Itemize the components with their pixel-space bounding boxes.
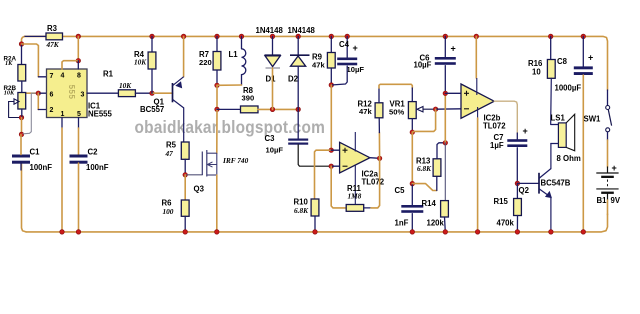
wire Q2 emitter to ground xyxy=(550,197,552,232)
wire Q2 collector to LS1 xyxy=(550,144,552,169)
resistor R14 xyxy=(441,201,449,217)
label 1N4148 D1 xyxy=(256,26,284,35)
wire R13 bottom lead xyxy=(436,176,438,190)
svg-text:47: 47 xyxy=(165,149,174,158)
value R5 47 xyxy=(165,149,174,158)
label TL072 a xyxy=(362,178,385,187)
value LS1 8 Ohm xyxy=(557,154,581,163)
diode D1 1N4148 xyxy=(265,55,281,68)
svg-text:C4: C4 xyxy=(339,40,350,49)
junction VR1 bottom xyxy=(410,130,415,135)
battery B1 xyxy=(596,173,618,194)
wire rail to D1 xyxy=(272,36,274,55)
value R11 1M8 xyxy=(348,192,362,201)
wire node to C3 xyxy=(297,109,299,138)
label R2A xyxy=(4,55,17,62)
wire battery bottom lead xyxy=(607,194,609,200)
wire node to C5 xyxy=(411,184,413,205)
svg-text:6.8K: 6.8K xyxy=(417,164,432,173)
resistor R11 xyxy=(346,205,364,212)
svg-text:Q3: Q3 xyxy=(194,185,205,194)
pin number 5 xyxy=(77,111,81,118)
wire pin 5 stub xyxy=(78,118,80,129)
svg-text:1M8: 1M8 xyxy=(348,192,362,201)
wire VR1 bottom down to C5 node xyxy=(411,132,413,183)
svg-text:NE555: NE555 xyxy=(88,110,113,119)
svg-text:1000µF: 1000µF xyxy=(555,84,582,93)
wire node A to R2A xyxy=(21,44,23,65)
wire pin 3 to R1 xyxy=(87,92,118,94)
svg-text:Q2: Q2 xyxy=(519,186,530,195)
wire R2A to R2B xyxy=(21,81,23,93)
label R10 xyxy=(294,198,309,207)
svg-text:50%: 50% xyxy=(389,108,404,117)
label IC2b xyxy=(484,114,501,123)
value R6 100 xyxy=(163,207,174,216)
junction C6/IC2b + input xyxy=(443,91,448,96)
value C1 100nF xyxy=(30,163,53,172)
transistor Q2 BC547B NPN xyxy=(539,169,552,198)
label L1 xyxy=(229,50,239,59)
wire output node up xyxy=(378,133,380,159)
label 1N4148 D2 xyxy=(288,26,316,35)
resistor R10 xyxy=(311,199,319,216)
speaker LS1 xyxy=(558,114,574,151)
svg-text:C5: C5 xyxy=(395,186,406,195)
label R4 xyxy=(134,50,145,59)
wire rail to C6 xyxy=(444,36,446,57)
wire rail to R7 xyxy=(216,36,218,51)
svg-text:9V: 9V xyxy=(611,196,621,205)
junction rail L1 xyxy=(239,34,244,39)
plus C8 xyxy=(588,53,593,63)
inductor L1 xyxy=(242,49,246,75)
label C6 xyxy=(420,54,431,63)
wire R12 to VR1 bridge xyxy=(379,84,412,88)
svg-text:10K: 10K xyxy=(119,81,132,90)
svg-text:120k: 120k xyxy=(427,219,445,228)
wire R11 right lead xyxy=(364,207,371,209)
capacitor C3 xyxy=(288,139,308,145)
plus C7 xyxy=(523,126,528,136)
label BC557 xyxy=(140,105,164,114)
svg-text:100: 100 xyxy=(163,207,174,216)
svg-text:10K: 10K xyxy=(4,90,15,97)
svg-text:3: 3 xyxy=(81,92,85,99)
wire + input lead xyxy=(331,149,339,151)
svg-text:555: 555 xyxy=(67,85,76,100)
capacitor C4 electrolytic xyxy=(337,58,357,66)
wire C2 bottom to ground xyxy=(78,163,80,232)
wire R2B bottom lead xyxy=(21,109,23,118)
value C6 10uF xyxy=(414,61,432,70)
junction rail IC2b supply xyxy=(474,34,479,39)
plus C4 xyxy=(353,43,358,53)
label IRF 740 xyxy=(222,156,249,165)
capacitor C5 xyxy=(401,205,423,213)
label C5 xyxy=(395,186,406,195)
label D1 xyxy=(266,75,277,84)
junction C2 ground xyxy=(76,230,81,235)
svg-text:1N4148: 1N4148 xyxy=(288,26,316,35)
junction Q2 base/R15 xyxy=(515,181,520,186)
label R2B xyxy=(4,85,17,92)
svg-text:390: 390 xyxy=(242,94,255,103)
wire rail to C8 xyxy=(582,36,584,66)
value C4 10uF xyxy=(347,65,365,74)
junction C1 top node xyxy=(19,132,24,137)
wire wiper to R2B bottom xyxy=(9,117,22,119)
junction IC2a + input xyxy=(329,148,334,153)
wire rail to C4 xyxy=(346,36,348,57)
wire Q1 collector to R5 xyxy=(183,108,185,142)
svg-text:C3: C3 xyxy=(265,134,276,143)
value R13 6.8K xyxy=(417,164,432,173)
svg-text:47k: 47k xyxy=(359,107,372,116)
resistor R2A xyxy=(18,65,26,82)
junction R9/C4 xyxy=(329,83,334,88)
svg-text:D1: D1 xyxy=(266,75,277,84)
wire rail to Q1 emitter xyxy=(183,36,185,76)
wire C3 to IC2a - input xyxy=(298,145,331,167)
label Q3 xyxy=(194,185,205,194)
pin number 3 xyxy=(81,92,85,99)
wire + input IC2b xyxy=(445,92,461,94)
value R8 390 xyxy=(242,94,255,103)
capacitor C7 electrolytic xyxy=(507,139,527,147)
resistor R8 xyxy=(241,106,259,113)
junction rail to pin 8 xyxy=(76,34,81,39)
svg-text:B1: B1 xyxy=(597,196,608,205)
plus C6 xyxy=(451,44,456,54)
junction R6 ground xyxy=(183,230,188,235)
junction rail C8 xyxy=(581,34,586,39)
label R3 xyxy=(47,24,58,33)
junction R1/R4/Q1 base xyxy=(150,91,155,96)
svg-text:100nF: 100nF xyxy=(30,163,53,172)
svg-text:1N4148: 1N4148 xyxy=(256,26,284,35)
wire C1 bottom to ground corner xyxy=(22,164,27,232)
resistor R5 xyxy=(181,142,189,159)
wire R1 to base node xyxy=(135,92,152,94)
label R7 xyxy=(199,50,209,59)
pin number 6 xyxy=(50,92,54,99)
svg-text:+: + xyxy=(353,43,358,53)
label C8 xyxy=(557,57,568,66)
resistor R1 xyxy=(118,90,135,97)
wiper arrow VR1 xyxy=(417,107,436,112)
svg-text:TL072: TL072 xyxy=(362,178,385,187)
svg-text:6.8K: 6.8K xyxy=(294,206,309,215)
wire rail to D2 xyxy=(297,36,299,55)
svg-text:10µF: 10µF xyxy=(414,61,432,70)
label TL072 b xyxy=(483,122,506,131)
wire top rail left to R3 xyxy=(25,35,47,37)
wire R8 to D1 D2 node xyxy=(258,108,298,110)
wire gate node to Q3 xyxy=(185,174,202,176)
resistor R12 xyxy=(375,103,383,118)
junction IC2a - input xyxy=(329,164,334,169)
junction pin1 ground xyxy=(60,230,65,235)
svg-text:TL072: TL072 xyxy=(483,122,506,131)
svg-text:10: 10 xyxy=(532,68,541,77)
wire rail to pin 8 node xyxy=(77,36,79,60)
pin number 7 xyxy=(50,73,54,80)
wire R7 node down xyxy=(216,85,218,109)
wire R15 to ground xyxy=(516,216,518,232)
svg-text:10µF: 10µF xyxy=(347,65,365,74)
label R5 xyxy=(166,141,177,150)
resistor R6 xyxy=(181,200,189,216)
value R12 47k xyxy=(359,107,372,116)
value R9 47k xyxy=(312,61,325,70)
pin number 2 xyxy=(50,107,54,114)
wire R16 to LS1 xyxy=(551,78,559,124)
wire C5 to ground xyxy=(411,214,413,232)
wire VR1 top lead xyxy=(411,88,413,102)
transistor Q3 IRF740 MOSFET xyxy=(202,150,217,177)
resistor VR1 preset xyxy=(408,102,416,119)
svg-text:10K: 10K xyxy=(134,58,147,67)
wire C1 bottom lead xyxy=(20,163,22,170)
label R8 xyxy=(243,86,254,95)
junction R13/R14 divider xyxy=(443,141,448,146)
resistor R3 xyxy=(46,33,63,40)
svg-text:+: + xyxy=(523,126,528,136)
label IC2a xyxy=(362,170,379,179)
resistor R4 xyxy=(148,52,156,69)
svg-text:220: 220 xyxy=(199,58,212,67)
wire C6 node down to divider xyxy=(444,93,446,143)
op-amp U2a IC2a TL072 xyxy=(340,132,370,204)
wire pin 1 stub xyxy=(61,118,63,129)
resistor R15 xyxy=(514,199,522,216)
label R15 xyxy=(494,197,509,206)
svg-text:47K: 47K xyxy=(46,40,60,49)
label D2 xyxy=(288,75,299,84)
junction rail D2 xyxy=(296,34,301,39)
wire L1 to R7 node xyxy=(217,84,242,86)
svg-text:6: 6 xyxy=(50,92,54,99)
wire pin 7 stub xyxy=(38,76,46,78)
pin number 4 xyxy=(61,73,65,80)
svg-text:8 Ohm: 8 Ohm xyxy=(557,154,581,163)
value R2B 10K xyxy=(4,90,15,97)
wire R2A/R2B node to pin 6 junction xyxy=(24,92,38,94)
label 555 inside chip xyxy=(67,85,76,100)
wire Q3 source to ground xyxy=(216,175,218,232)
junction rail R16 xyxy=(548,34,553,39)
junction IC2b ground xyxy=(475,230,480,235)
wire R7 bottom lead xyxy=(216,70,218,85)
junction Q3 ground xyxy=(215,230,220,235)
wire battery to ground rail xyxy=(607,200,609,215)
value R1 10K xyxy=(119,81,132,90)
wire ground rail xyxy=(26,214,608,232)
svg-text:SW1: SW1 xyxy=(584,115,602,124)
resistor R16 xyxy=(547,60,555,79)
junction R10 ground xyxy=(313,230,318,235)
plus B1 xyxy=(612,163,617,173)
svg-text:C8: C8 xyxy=(557,57,568,66)
wire IC2b output xyxy=(494,101,517,133)
switch SW1 xyxy=(606,106,612,132)
label SW1 xyxy=(584,115,602,124)
transistor Q1 BC557 PNP xyxy=(173,77,184,108)
value VR1 50% xyxy=(389,108,404,117)
junction R8 node xyxy=(215,107,220,112)
wire IC2a output xyxy=(370,157,380,160)
wire rail to L1 xyxy=(241,36,243,48)
label C7 xyxy=(494,133,504,142)
wire rail to R4 xyxy=(151,36,153,52)
svg-text:470k: 470k xyxy=(497,219,515,228)
wire - node to R11 xyxy=(331,166,346,208)
wire D1 to node xyxy=(272,68,274,109)
wire pin 2 stub xyxy=(38,109,46,111)
wire R5 to gate node xyxy=(184,159,186,175)
label Q2 xyxy=(519,186,530,195)
svg-text:+: + xyxy=(612,163,617,173)
value R14 120k xyxy=(427,219,445,228)
wire pin 5 to C2 xyxy=(78,128,80,155)
resistor R2B preset xyxy=(18,93,26,110)
wire rail to IC2b V+ xyxy=(475,36,477,78)
svg-text:C2: C2 xyxy=(88,148,99,157)
wire L1 bottom lead xyxy=(241,75,243,85)
svg-text:1µF: 1µF xyxy=(490,141,504,150)
wire + node to R10 xyxy=(315,150,332,199)
label NE555 xyxy=(88,110,113,119)
svg-text:47k: 47k xyxy=(312,61,325,70)
resistor R9 xyxy=(327,53,335,69)
label BC547B xyxy=(541,179,571,188)
svg-text:BC557: BC557 xyxy=(140,105,164,114)
wire C6 bottom lead xyxy=(444,66,446,94)
wire R9 bottom lead xyxy=(330,68,332,85)
value C5 1nF xyxy=(395,219,409,228)
wire gate node to R6 xyxy=(184,175,186,200)
junction VR1 wiper xyxy=(433,107,438,112)
junction rail C6 xyxy=(443,34,448,39)
wiper arrow R2B xyxy=(9,99,19,118)
wire top rail V+ down right side xyxy=(63,36,608,90)
junction rail R4 xyxy=(150,34,155,39)
junction C8 ground xyxy=(581,230,586,235)
wire node to Q3 drain xyxy=(216,109,218,153)
wire R6 to ground xyxy=(184,216,186,232)
svg-text:1: 1 xyxy=(61,111,65,118)
label R12 xyxy=(358,100,373,109)
svg-text:5: 5 xyxy=(77,111,81,118)
wire base node to Q2 xyxy=(517,182,539,184)
wire to battery xyxy=(607,140,609,167)
wire node to R13 bottom xyxy=(412,184,436,191)
value C8 1000uF xyxy=(555,84,582,93)
wire corner to node A xyxy=(22,36,25,44)
junction pin 6/2/7 node xyxy=(36,91,41,96)
svg-text:+: + xyxy=(451,44,456,54)
value R7 220 xyxy=(199,58,212,67)
wire pin 6 stub xyxy=(38,92,46,94)
resistor R13 xyxy=(433,159,441,177)
svg-text:R1: R1 xyxy=(103,70,114,79)
wire C8 to ground xyxy=(582,75,584,232)
svg-text:R15: R15 xyxy=(494,197,509,206)
label R14 xyxy=(422,199,437,208)
wire wiper to IC2b - input xyxy=(436,108,461,110)
wire to SW1 top xyxy=(607,90,609,105)
svg-text:BC547B: BC547B xyxy=(541,179,571,188)
wire pin6 node to C1 node xyxy=(23,93,38,134)
junction rail Q1 emitter xyxy=(181,34,186,39)
wire feedback up to output node xyxy=(371,158,380,208)
value C2 100nF xyxy=(86,163,109,172)
junction R2B bottom/wiper xyxy=(19,115,24,120)
wire output lead to C7 xyxy=(516,133,518,139)
label B1 xyxy=(597,196,608,205)
wire pin 6 node down to pin 2 xyxy=(37,93,39,109)
diode D2 1N4148 xyxy=(290,55,310,66)
svg-text:8: 8 xyxy=(77,73,81,80)
value R16 10 xyxy=(532,68,541,77)
svg-text:C1: C1 xyxy=(30,148,41,157)
svg-text:LS1: LS1 xyxy=(551,114,566,123)
label C3 xyxy=(265,134,276,143)
wire D2 to node xyxy=(297,66,299,109)
op-amp U2b IC2b TL072 xyxy=(461,78,494,120)
wire pin 4 loop xyxy=(62,61,78,69)
wire divider to R14 xyxy=(444,143,446,201)
svg-text:+: + xyxy=(588,53,593,63)
wire R4 to base node xyxy=(151,69,153,93)
capacitor C2 xyxy=(70,155,88,164)
junction R7/L1 xyxy=(215,83,220,88)
wire pin 8 stub xyxy=(77,61,79,69)
label Q1 xyxy=(154,98,165,107)
label R16 xyxy=(528,59,543,68)
junction R5/R6/Q3 gate xyxy=(183,173,188,178)
junction Q2 ground xyxy=(549,230,554,235)
junction C5/R13 node xyxy=(410,181,415,186)
junction R15 ground xyxy=(515,230,520,235)
junction D2/C3 node xyxy=(296,107,301,112)
pin number 1 xyxy=(61,111,65,118)
watermark xyxy=(135,117,326,137)
svg-text:R14: R14 xyxy=(422,199,437,208)
wire VR1 bottom lead xyxy=(411,119,413,133)
label VR1 xyxy=(390,100,406,109)
svg-text:4: 4 xyxy=(61,73,65,80)
wire R12 bottom lead xyxy=(378,118,380,133)
svg-text:7: 7 xyxy=(50,73,54,80)
junction D1 node xyxy=(270,107,275,112)
label R9 xyxy=(312,53,323,62)
wire C4 bottom to R9 node xyxy=(331,66,347,85)
svg-text:1nF: 1nF xyxy=(395,219,409,228)
label LS1 xyxy=(551,114,566,123)
wire node A to pin 7 xyxy=(22,44,39,77)
capacitor C8 electrolytic xyxy=(574,66,593,75)
wire pin 1 to ground xyxy=(61,128,63,232)
junction pin 4/8 xyxy=(76,58,81,63)
junction IC2a output xyxy=(377,156,382,161)
svg-text:D2: D2 xyxy=(288,75,299,84)
value R4 10K xyxy=(134,58,147,67)
wire IC2b V- to ground xyxy=(477,118,479,232)
junction R14 ground xyxy=(443,230,448,235)
wire R2B bottom to C1 node xyxy=(21,118,23,135)
